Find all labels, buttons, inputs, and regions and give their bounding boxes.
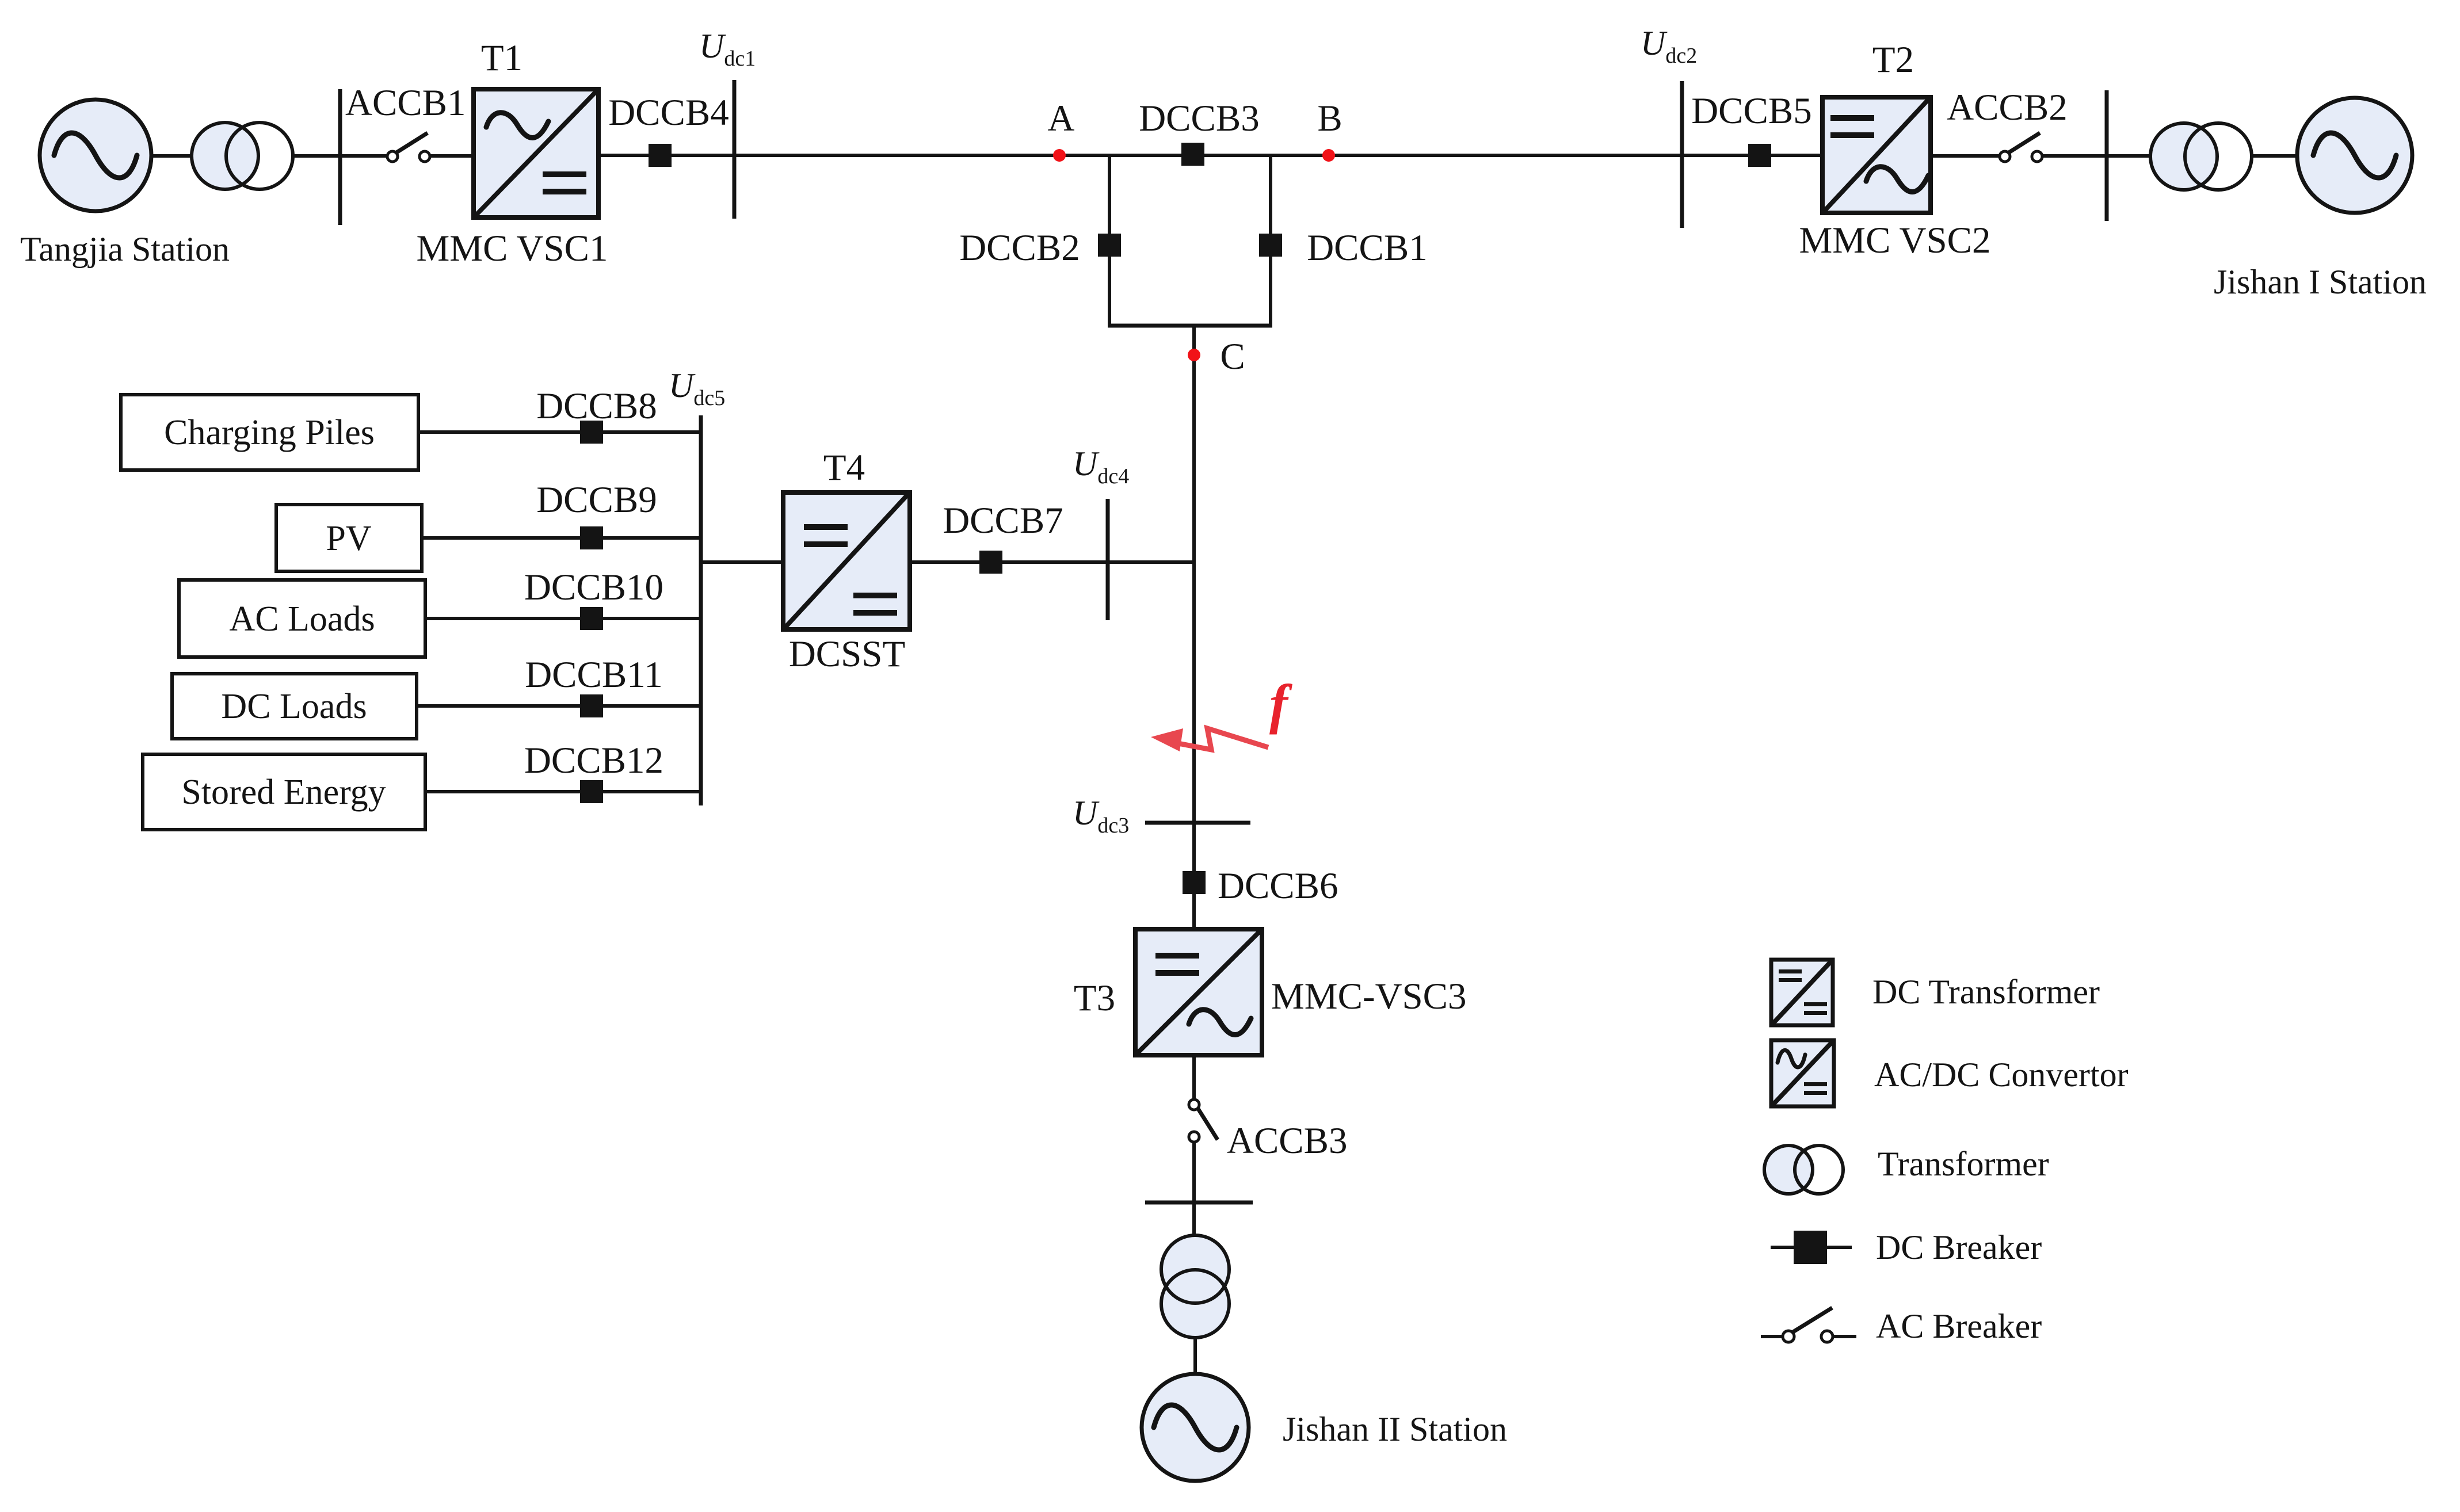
wire DC Loads to Udc5 bus [417,704,701,708]
wire ring to T3 vertical trunk [1192,326,1196,929]
svg-text:ACCB2: ACCB2 [1947,87,2068,128]
load box AC Loads [179,580,425,657]
svg-text:T4: T4 [823,447,865,488]
svg-text:DCCB5: DCCB5 [1691,90,1812,132]
node B [1322,149,1335,162]
wire ring left vertical [1108,155,1111,326]
wire ACCB1 to T1 [430,154,474,158]
svg-text:C: C [1220,336,1245,377]
DC breaker DCCB7 [979,551,1002,574]
svg-text:DCCB2: DCCB2 [959,227,1080,269]
transformer Tangjia [192,123,293,189]
converter T3 MMC-VSC3 [1135,929,1262,1055]
DC breaker DCCB5 [1748,144,1771,167]
svg-text:DCCB6: DCCB6 [1218,865,1338,907]
svg-text:T2: T2 [1872,39,1914,81]
wire T4 to trunk [910,560,1194,564]
DC breaker DCCB6 [1183,871,1206,894]
DC breaker DCCB3 [1181,143,1204,166]
svg-text:DCCB10: DCCB10 [524,567,663,608]
wire ring bottom [1108,324,1272,328]
svg-text:DCCB7: DCCB7 [943,500,1063,541]
svg-text:DC Transformer: DC Transformer [1872,973,2100,1011]
DC breaker DCCB12 [580,780,603,803]
wire bus to transformer [2107,154,2150,158]
DC breaker DCCB2 [1098,234,1121,257]
svg-text:DCCB11: DCCB11 [525,654,663,696]
transformer Jishan I [2150,123,2252,190]
svg-text:DCCB8: DCCB8 [536,385,657,427]
svg-text:MMC VSC2: MMC VSC2 [1799,220,1991,261]
legend Transformer symbol [1764,1146,1843,1194]
svg-text:DC Breaker: DC Breaker [1876,1228,2042,1266]
svg-text:T1: T1 [481,37,522,79]
wire transformer to AC source [1193,1338,1197,1374]
wire T1 to Udc1 bus [598,154,734,157]
AC breaker ACCB2 [2000,133,2042,162]
wire AC Loads to Udc5 bus [425,617,701,620]
svg-text:AC/DC Convertor: AC/DC Convertor [1874,1056,2129,1094]
wire ACCB2 to AC bus [2042,154,2107,158]
legend DC Breaker symbol [1771,1231,1852,1264]
svg-text:PV: PV [326,519,371,558]
load box Charging Piles [121,395,418,470]
load box Stored Energy [143,754,425,830]
wire ring top [1109,154,1271,157]
svg-text:Transformer: Transformer [1878,1145,2049,1183]
AC source Tangjia Station [40,100,151,211]
wire T3 to ACCB3 [1192,1055,1196,1099]
wire Udc5 bus to T4 [701,560,783,564]
wire B to Udc2 bus [1271,154,1682,157]
svg-text:Charging Piles: Charging Piles [164,413,375,452]
svg-text:DCCB4: DCCB4 [608,92,729,133]
wire transformer to AC bus [293,154,340,158]
svg-text:DCCB1: DCCB1 [1307,227,1428,269]
load box PV [276,505,422,571]
svg-text:DC Loads: DC Loads [221,687,367,726]
legend DC Transformer symbol [1771,960,1833,1025]
svg-text:Tangjia Station: Tangjia Station [20,230,230,268]
svg-text:T3: T3 [1074,978,1115,1019]
fault arrow f [1151,728,1268,751]
svg-text:A: A [1048,98,1075,139]
wire Stored Energy to Udc5 bus [425,790,701,793]
svg-text:Stored Energy: Stored Energy [181,773,386,812]
svg-text:DCCB12: DCCB12 [524,740,663,781]
DC breaker DCCB10 [580,607,603,630]
DC breaker DCCB4 [649,144,672,167]
node A [1053,149,1066,162]
load box DC Loads [172,674,417,739]
AC busbar Jishan II [1145,1201,1253,1205]
legend AC Breaker symbol [1761,1308,1856,1342]
wire Udc2 to T2 [1682,154,1822,157]
svg-text:DCCB3: DCCB3 [1139,98,1260,139]
AC busbar right [2105,90,2109,221]
wire Charging Piles to Udc5 bus [418,430,701,434]
wire bus to transformer [1192,1202,1196,1236]
svg-text:Jishan I Station: Jishan I Station [2214,263,2427,301]
AC source Jishan I Station [2297,98,2412,213]
svg-text:MMC-VSC3: MMC-VSC3 [1271,976,1467,1017]
DC breaker DCCB11 [580,694,603,717]
wire T2 to ACCB2 [1931,154,2000,158]
busbar Udc4 [1106,499,1110,620]
wire transformer to AC source [2252,154,2297,158]
AC source Jishan II Station [1142,1374,1249,1481]
DC breaker DCCB1 [1259,234,1282,257]
node C [1188,349,1200,361]
AC breaker ACCB3 [1189,1099,1218,1142]
converter T2 MMC VSC2 [1822,97,1931,213]
wire PV to Udc5 bus [422,536,701,540]
busbar Udc3 [1145,821,1250,825]
busbar Udc1 [733,80,737,219]
svg-text:ACCB1: ACCB1 [345,82,466,124]
svg-text:AC Breaker: AC Breaker [1876,1307,2042,1345]
legend AC/DC Convertor symbol [1771,1040,1834,1106]
wire bus to ACCB1 [340,154,387,158]
svg-text:MMC VSC1: MMC VSC1 [417,228,608,269]
busbar Udc2 [1680,81,1684,228]
svg-text:ACCB3: ACCB3 [1227,1120,1348,1162]
svg-text:AC Loads: AC Loads [229,600,375,639]
DC transformer T4 DCSST [783,492,910,629]
wire ACCB3 to AC bus [1192,1142,1196,1202]
svg-text:DCCB9: DCCB9 [536,479,657,521]
converter T1 MMC VSC1 [474,89,598,217]
svg-text:Jishan II Station: Jishan II Station [1283,1410,1507,1448]
busbar Udc5 [699,415,703,805]
transformer Jishan II [1161,1235,1229,1338]
DC breaker DCCB8 [580,421,603,444]
wire source to transformer [151,154,192,158]
AC breaker ACCB1 [387,133,430,162]
wire Udc1 to ring [734,154,1109,157]
AC busbar left [338,89,342,225]
svg-text:B: B [1317,98,1342,139]
wire ring right vertical [1269,155,1272,326]
svg-text:DCSST: DCSST [789,633,905,675]
DC breaker DCCB9 [580,526,603,549]
